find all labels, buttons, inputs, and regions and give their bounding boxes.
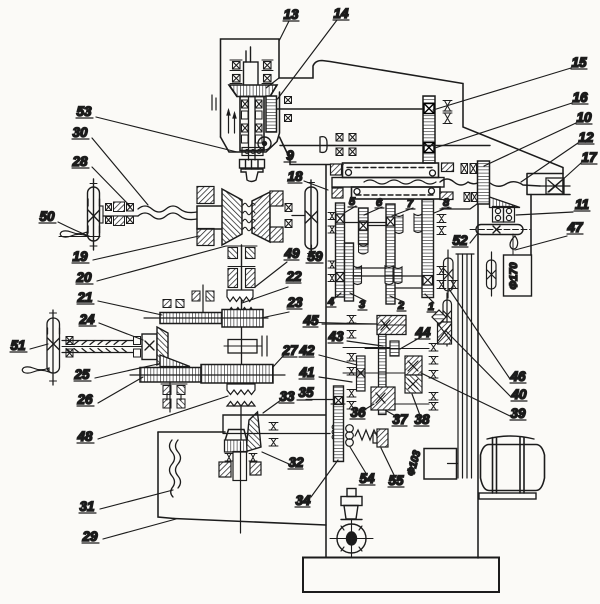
- wavy vertical shaft 31: [170, 440, 181, 497]
- leader 15: [433, 68, 571, 110]
- coupling pair 22: [228, 267, 255, 288]
- tick 1: [425, 294, 434, 303]
- worm bearings: [66, 337, 141, 358]
- tick 5: [344, 206, 356, 213]
- leader 19: [93, 236, 199, 260]
- leader 12: [521, 143, 578, 182]
- svg-text:15: 15: [571, 55, 587, 70]
- svg-text:14: 14: [333, 6, 349, 21]
- leader 20: [97, 246, 226, 281]
- knee upper edge: [223, 415, 325, 433]
- tick 2: [390, 296, 404, 302]
- svg-text:37: 37: [392, 412, 409, 427]
- bearings below right of rail2: [464, 193, 478, 202]
- leader 16: [435, 103, 572, 148]
- gear column on shaft IV-V (top right): [423, 96, 435, 163]
- wavy telescopic shaft in ram: [364, 180, 436, 184]
- bearing block below bevel (item 11): [493, 207, 515, 223]
- tick 6: [364, 207, 382, 215]
- motor feed box: [424, 449, 458, 480]
- leader 13: [280, 21, 290, 40]
- bevel box bottom shaft down: [241, 245, 243, 313]
- flexible wavy shaft: [138, 206, 197, 220]
- speed gearbox column V2 (shaft 6): [359, 208, 369, 254]
- svg-text:49: 49: [283, 246, 300, 261]
- svg-text:30: 30: [72, 125, 88, 140]
- leader 48: [98, 396, 228, 439]
- leader 44: [400, 337, 421, 349]
- svg-text:29: 29: [81, 529, 98, 544]
- worm shaft capsule 51: [47, 310, 60, 385]
- gear 35/34 tall column: [332, 386, 344, 462]
- vertical shaft row2 left down: [169, 382, 171, 412]
- svg-text:20: 20: [75, 270, 92, 285]
- gear 44 small: [390, 341, 399, 356]
- svg-text:38: 38: [414, 412, 430, 427]
- gear row II: gear 26: [140, 368, 201, 383]
- gear on spindle right side: [266, 96, 277, 132]
- column right edge: [477, 204, 479, 558]
- output coupling squares right: [285, 204, 305, 228]
- shaft V bearings mid: [336, 134, 356, 156]
- wavy shaft right of bevel: [490, 182, 540, 187]
- gear row I: gear 21: [160, 313, 222, 324]
- overarm rail 2: [352, 187, 441, 199]
- leader 23: [261, 312, 289, 318]
- leader 11: [516, 212, 573, 215]
- svg-text:41: 41: [298, 365, 314, 380]
- diamond gear mark: [432, 310, 446, 324]
- svg-text:8: 8: [443, 197, 450, 209]
- leader 52: [470, 233, 478, 243]
- gearbox horizontal shaft lines: [344, 223, 422, 289]
- speed gearbox column V3 (shaft 7): [386, 204, 395, 304]
- svg-text:25: 25: [73, 367, 90, 382]
- leader 42: [319, 355, 357, 365]
- leader 41: [319, 377, 352, 382]
- leader 17: [549, 163, 581, 192]
- gearbox right bearing marks: [437, 215, 458, 289]
- svg-text:48: 48: [76, 429, 93, 444]
- svg-text:53: 53: [76, 104, 92, 119]
- bevel gearbox: input coupling: [197, 206, 222, 229]
- bevel 32 cap: [226, 430, 247, 440]
- safety clutch 23 zigzag: [227, 290, 254, 312]
- wavy shaft left into bevel: [440, 179, 478, 185]
- svg-text:9: 9: [286, 148, 294, 163]
- tick 8: [434, 207, 449, 213]
- bearing T marks right of bevel33: [269, 423, 278, 447]
- svg-text:40: 40: [510, 387, 527, 402]
- bearings right of pulley: [106, 202, 134, 226]
- right capsule shaft of bevel box: [305, 180, 318, 257]
- svg-text:51: 51: [10, 338, 25, 353]
- wire pocket to dial box: [530, 195, 532, 256]
- safety clutch 48 zigzag: [227, 384, 255, 406]
- tick 3: [350, 293, 366, 301]
- leader lines: [30, 20, 581, 539]
- teardrop handle right: [510, 236, 518, 249]
- spring coil 54: [346, 425, 354, 447]
- svg-text:46: 46: [509, 369, 526, 384]
- svg-text:6: 6: [376, 197, 383, 209]
- svg-text:3: 3: [359, 299, 365, 311]
- right pocket box: [527, 174, 570, 195]
- bevel gearbox: top hatch blocks: [197, 187, 214, 204]
- bevel box capsule ticks: [308, 183, 315, 254]
- detent lever near node 9: [320, 137, 327, 153]
- leader 14: [278, 20, 338, 99]
- bevel gear left (18): [222, 189, 242, 245]
- leader 45: [322, 323, 377, 325]
- left wall bearing marks: [328, 213, 336, 282]
- left pulley shaft capsule: [88, 179, 100, 250]
- small gear right of V3 bottom: [394, 267, 402, 284]
- leader 53: [96, 117, 237, 152]
- vertical screw capsule (46 target): [443, 293, 452, 346]
- svg-text:47: 47: [566, 220, 584, 235]
- speed gearbox column V4 (shaft 1/8): [422, 200, 434, 298]
- hatched nut gear (40 target): [438, 322, 452, 344]
- leader 38: [412, 394, 421, 418]
- speed gearbox column V1 (shaft 5/4): [336, 203, 354, 301]
- svg-text:5: 5: [349, 196, 356, 208]
- bevel gear 25 vertical: [157, 327, 168, 365]
- svg-text:50: 50: [39, 209, 55, 224]
- coupling pair 49: [226, 246, 257, 259]
- svg-text:44: 44: [414, 325, 431, 340]
- spindle top bearings: [230, 60, 273, 84]
- svg-text:42: 42: [298, 343, 315, 358]
- gear 45 block: [377, 316, 406, 335]
- knee outline top: [158, 431, 225, 433]
- svg-text:26: 26: [76, 392, 93, 407]
- leader 46: [449, 289, 510, 379]
- leader 32: [262, 452, 289, 464]
- bearing box with X 17: [540, 178, 570, 194]
- bevel gear right: [252, 192, 270, 242]
- leader 25: [95, 364, 158, 378]
- leader 27: [273, 355, 284, 367]
- overarm rail 1: [343, 163, 439, 178]
- elevating screw bundle: [456, 254, 474, 478]
- right bearing T column: [429, 344, 438, 411]
- gear pair 38: [405, 356, 422, 393]
- svg-text:10: 10: [576, 110, 592, 125]
- gear row II: gear 27: [201, 365, 273, 384]
- svg-text:16: 16: [572, 90, 588, 105]
- knee bottom line: [174, 519, 326, 526]
- leader 28: [92, 167, 130, 206]
- leader 31: [100, 490, 173, 509]
- teardrop handle 51: [22, 367, 49, 373]
- base: [303, 558, 499, 593]
- leader 35: [306, 399, 333, 401]
- vertical feed shaft striped: [379, 335, 387, 415]
- svg-text:59: 59: [307, 249, 323, 264]
- svg-text:45: 45: [302, 313, 319, 328]
- svg-text:28: 28: [71, 154, 88, 169]
- horizontal shaft IV: [277, 108, 423, 110]
- bottom handwheel: [330, 489, 373, 559]
- item 55 block: [373, 429, 388, 447]
- row II centerline: [130, 374, 285, 376]
- svg-text:19: 19: [72, 249, 88, 264]
- leader 43: [347, 341, 383, 346]
- svg-text:17: 17: [581, 150, 598, 165]
- dial box F170: [504, 255, 532, 296]
- hatch block right of rail1: [442, 163, 454, 172]
- svg-text:32: 32: [288, 455, 304, 470]
- svg-text:18: 18: [287, 169, 303, 184]
- bearings below row II: [161, 384, 187, 408]
- oval hub (item 52 target): [470, 225, 530, 235]
- bevel fan 25: [160, 355, 190, 367]
- column left edge: [325, 165, 327, 557]
- leader 22: [242, 287, 288, 303]
- knee shaft assembly below: [219, 442, 261, 533]
- svg-text:21: 21: [76, 290, 92, 305]
- leader 36: [364, 404, 374, 410]
- svg-text:11: 11: [575, 197, 589, 212]
- shaft down to bevel 33: [240, 407, 242, 452]
- svg-text:1: 1: [428, 301, 434, 313]
- leader 54: [350, 447, 367, 475]
- svg-text:39: 39: [510, 406, 526, 421]
- shaft line through pulley: [100, 206, 104, 223]
- handle teardrop item 50: [60, 231, 87, 237]
- leader 51: [30, 344, 48, 349]
- leader 37: [385, 410, 399, 418]
- svg-text:12: 12: [578, 130, 594, 145]
- horizontal shaft V: [280, 145, 490, 147]
- spindle shaft vertical lines: [244, 47, 259, 86]
- ram bar: [332, 178, 444, 188]
- zigzag spring: [355, 430, 377, 440]
- lower cluster shaft lines: [317, 323, 429, 405]
- hatch blocks left of rails: [331, 164, 342, 175]
- leader 40: [446, 331, 511, 397]
- leader 24: [99, 323, 143, 340]
- svg-text:2: 2: [397, 300, 404, 312]
- lead screw shaft with hatching: [62, 341, 142, 353]
- gear 37: [371, 387, 395, 410]
- svg-text:Ф170: Ф170: [508, 262, 520, 290]
- head lower-left edge: [221, 92, 280, 152]
- gear 42 narrow: [357, 356, 366, 391]
- pulley centerline ticks: [90, 184, 97, 247]
- leader 29: [103, 519, 176, 539]
- leader 55: [381, 448, 395, 477]
- capsule with X left of dial: [487, 252, 497, 296]
- bearings right of rail1: [461, 164, 477, 174]
- svg-text:36: 36: [350, 405, 366, 420]
- small gear right of V3 top: [354, 215, 404, 285]
- svg-text:55: 55: [388, 473, 404, 488]
- leader 21: [98, 301, 162, 315]
- leader 47: [515, 236, 567, 250]
- bevel 33 vertical: [246, 412, 261, 452]
- hatch squares above row I: [163, 285, 214, 312]
- leader 34: [311, 460, 338, 497]
- tick 4: [335, 293, 341, 298]
- worm capsule ticks: [50, 313, 57, 381]
- machine head outline: [221, 39, 564, 194]
- shaft IV bearings left: [285, 97, 292, 122]
- svg-text:22: 22: [285, 269, 302, 284]
- svg-text:33: 33: [279, 389, 295, 404]
- spindle cartridge: [240, 97, 264, 151]
- svg-text:24: 24: [78, 312, 95, 327]
- horizontal shaft to gear 34: [223, 433, 330, 435]
- svg-text:43: 43: [327, 329, 344, 344]
- svg-text:31: 31: [79, 499, 94, 514]
- svg-text:52: 52: [452, 233, 468, 248]
- drive key circle: [258, 137, 271, 150]
- svg-text:34: 34: [295, 493, 311, 508]
- leader 26: [98, 377, 143, 403]
- gear row I: gear 23: [222, 310, 263, 328]
- svg-text:23: 23: [286, 295, 303, 310]
- spindle flange: [240, 148, 265, 182]
- bevel gearbox: right hatch blocks: [270, 191, 283, 206]
- left bearing T column: [347, 316, 356, 410]
- shaft IV bearings right: [443, 101, 452, 124]
- column neck outline: [280, 137, 344, 165]
- leader 33: [263, 400, 281, 413]
- tick 7: [392, 208, 413, 216]
- leader 10: [484, 123, 576, 166]
- motor barrel: [479, 436, 545, 499]
- leader 39: [421, 373, 510, 416]
- svg-text:4: 4: [327, 296, 334, 308]
- capsule with X far left: [444, 250, 454, 298]
- svg-text:7: 7: [407, 198, 414, 210]
- small levers in head: [212, 95, 236, 133]
- bevel gear vertical (item 10): [478, 161, 490, 204]
- leader 49: [255, 262, 287, 287]
- springs between bevels: [243, 203, 255, 231]
- svg-text:35: 35: [298, 385, 314, 400]
- worm wheel box 24: [142, 334, 157, 360]
- bevel 32 fan: [225, 440, 248, 452]
- cartridge bearing squares: [242, 100, 263, 143]
- bevel gear crown on spindle: [229, 85, 277, 97]
- leader 18: [304, 181, 328, 190]
- knee outline left: [158, 432, 174, 519]
- coupling box between rows: [224, 327, 267, 364]
- svg-text:27: 27: [281, 343, 299, 358]
- small gear left of V4 top: [414, 214, 422, 233]
- leader 30: [92, 138, 148, 205]
- shaft row I centerline: [144, 317, 268, 319]
- bevel fan (item 12 area): [490, 197, 521, 208]
- svg-text:13: 13: [283, 7, 299, 22]
- svg-text:54: 54: [359, 471, 375, 486]
